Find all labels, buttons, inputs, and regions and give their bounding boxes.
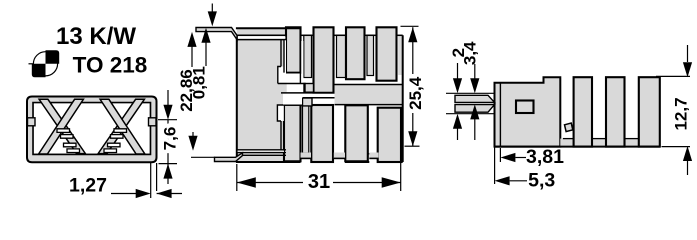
top view: recess edge segments top [301, 34, 314, 36]
svg-text:31: 31 [308, 171, 330, 193]
top view: recess gray at bottom gaps [301, 153, 312, 159]
top view: left edge [236, 35, 238, 157]
front view: serrated tooth mid [61, 135, 74, 139]
side view: bent finger (parallelogram) [565, 123, 573, 132]
top view: bottom outer edge segments [236, 161, 301, 163]
top view: bent lip bottom [215, 153, 243, 162]
top view: notch at mounting section right top [278, 67, 284, 83]
extension line wall outer [156, 163, 158, 191]
dimension 22,86 arrow [191, 46, 193, 67]
top view: fin 3 (up) [346, 27, 365, 79]
top view: finger root 1 bottom [303, 98, 313, 106]
top view: fin 1 (up) [286, 27, 301, 72]
svg-text:3,81: 3,81 [526, 146, 564, 168]
front view: spring arm (inner diagonal) [100, 99, 145, 154]
top view: fin 2 (up) [314, 27, 334, 93]
front view: serrated tooth lower [108, 143, 121, 147]
front view: serrated tooth lower [64, 143, 77, 147]
side view: sheet inner face line [499, 84, 501, 147]
dimension 25,4 [401, 25, 419, 27]
extension lines below side view [494, 116, 496, 184]
top view: web between fins 1-2 bottom [303, 106, 309, 153]
top view: central band right [335, 85, 403, 105]
front view: left wall tab [28, 118, 36, 126]
svg-text:25,4: 25,4 [406, 76, 425, 110]
extension line for bottom face [159, 163, 178, 165]
svg-text:0,81: 0,81 [189, 66, 208, 99]
top view: fin 4 (up) [377, 27, 397, 80]
svg-text:TO 218: TO 218 [73, 53, 148, 78]
svg-text:12,7: 12,7 [672, 97, 691, 130]
side view: fin 1 [574, 77, 592, 146]
extension line wall inner [150, 163, 152, 198]
side view: mounting hole [516, 101, 534, 114]
dimension 3,81 [500, 153, 515, 162]
dimension 31 [236, 164, 238, 191]
svg-text:5,3: 5,3 [528, 170, 555, 192]
top view: fin 1 (down) [284, 105, 301, 161]
top view: centre slit lines [283, 94, 335, 98]
side view: clip prong lower [455, 105, 495, 113]
side view: clip prong upper [455, 95, 495, 102]
front view: serrated tooth mid [111, 135, 124, 139]
front view: spring arm (inner diagonal) [39, 99, 84, 154]
side view: bottom edge [495, 146, 660, 148]
front view: inner cavity line [33, 103, 150, 155]
top view: top edge left section [236, 27, 301, 29]
top view: fin 4 (down) [378, 108, 401, 162]
top view: bent lip top [196, 28, 237, 40]
top view: web between fins 3-4 top [367, 35, 374, 75]
side view: fin 3 [639, 77, 660, 146]
top view: white-recess boundary lines bottom [335, 153, 346, 155]
top view: fin 3 (down) [345, 105, 368, 161]
orientation symbol (quadrant circle) [29, 50, 60, 77]
dimension 5,3 [495, 176, 510, 185]
top view: web between fins 1-2 top [304, 35, 312, 77]
top view: fin 2 (down) [311, 105, 333, 162]
dimension 3,4 arrows [474, 64, 476, 79]
svg-text:3,4: 3,4 [460, 41, 479, 65]
front view: spring arm (outer diagonal) [39, 99, 85, 153]
svg-text:7,6: 7,6 [161, 127, 180, 151]
front view: serrated tooth upper [114, 129, 127, 133]
side view: bottom band [560, 139, 660, 147]
side view: fin 2 [606, 77, 625, 146]
dimension line 1,27 with arrows [111, 193, 146, 195]
front view: serrated tooth bottom [104, 149, 117, 153]
front view: outer frame of clip profile [27, 97, 157, 163]
front view: serrated tooth bottom [67, 149, 80, 153]
top view: mounting section body [237, 28, 287, 161]
dimension line 7,6 [167, 120, 169, 164]
dimension 0,81 arrow [205, 42, 207, 66]
side view: body L-shape [495, 77, 561, 146]
top view: right edge strip [398, 35, 403, 75]
dimension 12,7 [656, 75, 690, 77]
top view: bottom recess line segments [301, 157, 312, 159]
extension lines for clip prongs [446, 92, 494, 94]
top view: folded edge slit top [238, 36, 286, 38]
front view: serrated tooth upper [57, 129, 70, 133]
dimension 2 arrows [457, 63, 459, 79]
svg-text:13 K/W: 13 K/W [56, 23, 136, 50]
top view: bottom inner lines [238, 151, 284, 153]
dimension arrow onto bottom lip [192, 132, 194, 139]
dimension arrow onto lip top [211, 4, 213, 15]
front view: right wall tab [149, 118, 157, 126]
top view: finger root 1 top [304, 84, 314, 93]
front view: spring arm (outer diagonal) [98, 99, 144, 153]
side view: bottom band top lines [563, 138, 574, 140]
svg-text:1,27: 1,27 [69, 175, 107, 197]
top view: notch at mounting section right bottom [277, 105, 283, 121]
top view: web between fins 2-3 top [337, 35, 346, 77]
top view: right edge [402, 35, 404, 162]
extension line for tab top [158, 119, 177, 121]
